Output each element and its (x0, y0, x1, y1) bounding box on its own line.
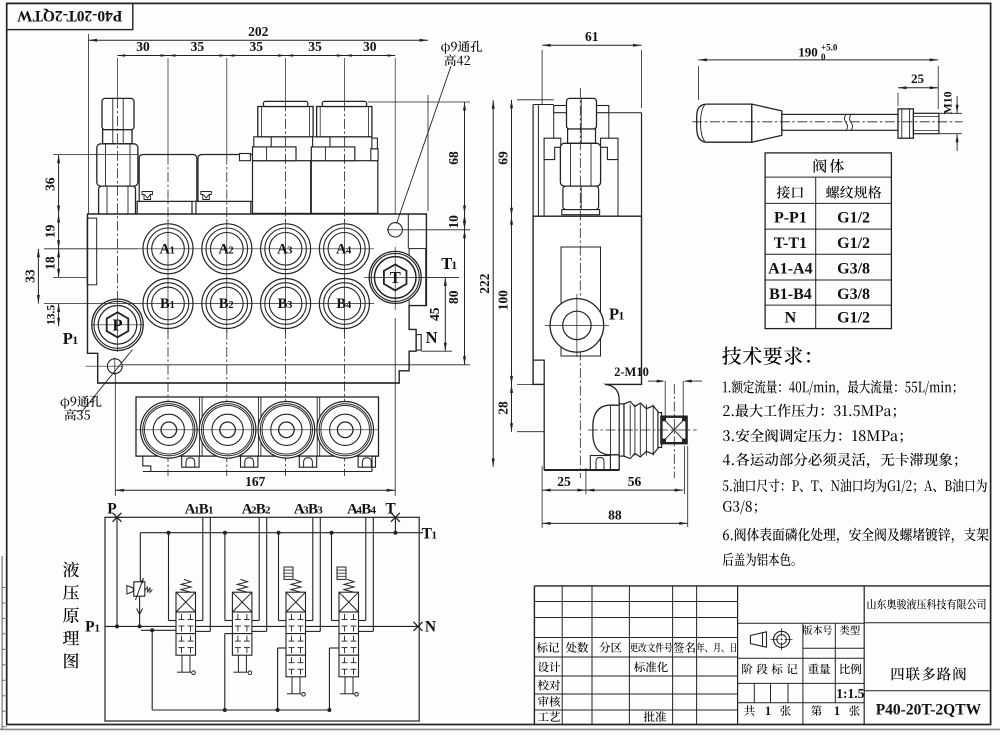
svg-text:18: 18 (43, 256, 58, 270)
page edge bottom (0, 728, 1000, 730)
dimension 25 side (541, 466, 543, 528)
side mounting foot (544, 470, 619, 472)
svg-text:G1/2: G1/2 (837, 309, 870, 326)
line T1 bus (140, 532, 423, 534)
svg-text:T-T1: T-T1 (774, 235, 807, 252)
relief valve RV1 (side) (567, 98, 597, 129)
svg-text:1: 1 (618, 309, 624, 323)
svg-text:0: 0 (821, 52, 826, 62)
relief valve symbol (134, 582, 145, 596)
rubber boot (side) (593, 405, 619, 455)
title rows left (538, 662, 560, 673)
lever centerline (692, 121, 962, 123)
lever knob (697, 104, 752, 142)
junction dots (115, 624, 119, 628)
valve table grid (765, 153, 891, 329)
company name (867, 599, 986, 610)
dimension 30-35-35-35-30 (118, 55, 396, 57)
svg-text:N: N (426, 328, 438, 347)
svg-text:T: T (385, 501, 396, 518)
lower block (bottom ports) (98, 382, 400, 384)
page edge left (1, 556, 3, 729)
svg-text:N: N (785, 309, 797, 326)
schematic border (105, 517, 419, 721)
svg-text:N: N (425, 619, 436, 636)
svg-text:G1/2: G1/2 (837, 235, 870, 252)
svg-text:1: 1 (72, 333, 78, 347)
dimension 61 (541, 50, 543, 104)
svg-text:25: 25 (557, 474, 571, 489)
spool cap C2 (short) (196, 201, 251, 214)
lever thread (913, 113, 939, 133)
svg-text:190: 190 (798, 45, 818, 60)
tech requirement line 7 (723, 528, 989, 543)
dimension 68 (368, 101, 470, 103)
svg-text:35: 35 (191, 39, 205, 54)
svg-text:B: B (336, 296, 346, 312)
port row centerlines (138, 248, 374, 250)
bracket step left of cap3 (240, 154, 251, 161)
svg-text:30: 30 (136, 39, 150, 54)
dimension 19 (58, 214, 60, 249)
svg-text:61: 61 (585, 29, 599, 44)
valve table header (777, 186, 790, 199)
tech requirement line 1 (723, 380, 955, 395)
directional valve V4 (330, 517, 374, 696)
label T1 (420, 276, 459, 278)
svg-text:35: 35 (249, 39, 263, 54)
label N (front) (421, 350, 452, 352)
leader phi9 lower (76, 350, 133, 411)
svg-text:25: 25 (911, 71, 925, 86)
svg-text:68: 68 (446, 151, 461, 165)
svg-text:28: 28 (496, 401, 511, 415)
note phi9x42 (441, 42, 450, 53)
line P1 bus (105, 625, 419, 627)
svg-text:B: B (278, 296, 288, 312)
plug P (113, 513, 122, 522)
bottom port circles (141, 402, 198, 459)
note phi9x35 (61, 397, 70, 408)
dimension 56 (684, 446, 686, 494)
svg-text:30: 30 (363, 39, 377, 54)
relief valve RV1 (front) (102, 98, 134, 129)
hole 9mm lower (107, 359, 122, 374)
svg-text:45: 45 (427, 307, 442, 321)
svg-text:4: 4 (346, 245, 352, 256)
svg-text:1:1.5: 1:1.5 (836, 686, 864, 701)
title stage row (742, 664, 797, 675)
hole 9mm upper (388, 223, 402, 237)
svg-text:1: 1 (431, 530, 437, 542)
svg-text:202: 202 (248, 24, 269, 39)
tech requirements heading (722, 346, 741, 364)
svg-text:1: 1 (94, 623, 100, 635)
svg-text:1: 1 (170, 300, 175, 311)
frame reference ticks (2, 586, 7, 588)
solenoid cap C3 (tall) (253, 161, 311, 214)
svg-text:35: 35 (308, 39, 322, 54)
svg-text:3: 3 (287, 245, 292, 256)
schematic label (63, 562, 79, 578)
svg-text:B: B (219, 296, 229, 312)
directional valve V3 (277, 517, 321, 696)
dimension 10 (403, 229, 470, 231)
directional valve V1 (167, 517, 211, 674)
tech requirement line 6 (723, 500, 757, 514)
solenoid cap C4 (tall) (311, 161, 378, 214)
dimension 222 front-side (492, 100, 494, 467)
plug T (391, 513, 400, 522)
svg-text:88: 88 (608, 507, 622, 522)
title box reversed (7, 3, 133, 29)
plug N (414, 622, 423, 631)
boot centerlines (588, 429, 697, 431)
svg-text:A1-A4: A1-A4 (768, 260, 812, 277)
side bracket (532, 105, 534, 217)
dimension 45 (444, 277, 446, 351)
svg-text:M10: M10 (941, 91, 955, 114)
lever nut (898, 109, 913, 138)
svg-text:B1-B4: B1-B4 (769, 286, 812, 303)
dimension 190 (697, 66, 699, 100)
svg-text:222: 222 (477, 273, 492, 294)
svg-text:100: 100 (496, 290, 511, 311)
svg-text:4: 4 (346, 300, 352, 311)
svg-text:G1/2: G1/2 (837, 210, 870, 227)
mounting feet and clamps (143, 471, 372, 473)
svg-text:36: 36 (43, 177, 58, 191)
valve body (front view) (88, 214, 427, 383)
svg-text:P40-20T-2QTW: P40-20T-2QTW (876, 702, 982, 719)
valve body (side view) (533, 216, 641, 384)
svg-text:33: 33 (22, 269, 37, 283)
svg-text:P: P (107, 501, 117, 518)
spool cap C1 (short) (137, 201, 192, 214)
directional valve V2 (223, 517, 267, 674)
svg-text:P: P (112, 315, 122, 334)
svg-text:1: 1 (834, 704, 840, 718)
side centerline (579, 88, 581, 478)
svg-text:56: 56 (628, 474, 642, 489)
dimension 13.5 (58, 304, 60, 327)
svg-text:1: 1 (208, 505, 214, 517)
dimension 28 (517, 431, 594, 433)
svg-text:2-M10: 2-M10 (614, 365, 649, 379)
svg-text:3: 3 (287, 300, 292, 311)
svg-text:G3/8: G3/8 (837, 260, 870, 277)
title sheet counts (744, 705, 755, 716)
dimension 25 lever (897, 93, 899, 106)
svg-text:1: 1 (451, 258, 457, 272)
dimension 69 (517, 99, 554, 101)
line carryover bus (152, 709, 329, 711)
tech requirement line 2 (723, 404, 896, 418)
leader phi9 upper (397, 66, 452, 224)
tech requirement line 5 (723, 479, 987, 494)
dimension 202 (88, 34, 90, 305)
projection symbol (750, 632, 766, 647)
svg-text:19: 19 (43, 224, 58, 238)
svg-text:13.5: 13.5 (46, 305, 58, 325)
svg-text:T: T (390, 268, 401, 287)
svg-text:167: 167 (245, 474, 266, 489)
title version cells (803, 625, 832, 635)
svg-text:2: 2 (228, 300, 233, 311)
svg-text:2: 2 (228, 245, 233, 256)
svg-text:G3/8: G3/8 (837, 286, 870, 303)
dimension 100 (517, 383, 546, 385)
title header row (537, 642, 559, 653)
dimension 167 (114, 374, 116, 496)
svg-text:P40-20T-2QTW: P40-20T-2QTW (17, 7, 123, 24)
svg-text:2: 2 (265, 505, 271, 517)
dimension 18 (53, 276, 87, 278)
tech requirement line 8 (723, 553, 795, 566)
lever shaft (782, 114, 898, 130)
port bosses A1-A4 B1-B4 (143, 224, 193, 274)
port T (369, 251, 421, 303)
svg-text:1: 1 (765, 704, 771, 718)
extension lines top (117, 58, 119, 98)
dimension 33 (44, 248, 138, 250)
dimension 80 (123, 364, 471, 366)
joint square (side) (661, 417, 686, 444)
port P1 (side) (550, 299, 604, 353)
svg-text:1: 1 (170, 245, 175, 256)
spool centerlines (117, 98, 119, 300)
svg-text:+5.0: +5.0 (821, 43, 838, 53)
svg-text:B: B (160, 296, 170, 312)
line bypass (141, 629, 176, 631)
product name (892, 667, 966, 680)
svg-text:80: 80 (446, 290, 461, 304)
svg-text:P-P1: P-P1 (774, 210, 807, 227)
line P drop (116, 517, 118, 626)
svg-text:69: 69 (496, 151, 511, 165)
tech requirement line 3 (723, 429, 903, 443)
svg-text:4: 4 (370, 505, 376, 517)
svg-text:3: 3 (317, 505, 323, 517)
dimension M10 (939, 112, 962, 114)
title block grid (534, 585, 990, 587)
svg-text:10: 10 (446, 215, 461, 229)
tech requirement line 4 (723, 453, 958, 468)
valve table title (814, 159, 827, 173)
dimension 88 (687, 446, 689, 527)
dimension 36 (53, 154, 139, 156)
port P (92, 299, 143, 350)
